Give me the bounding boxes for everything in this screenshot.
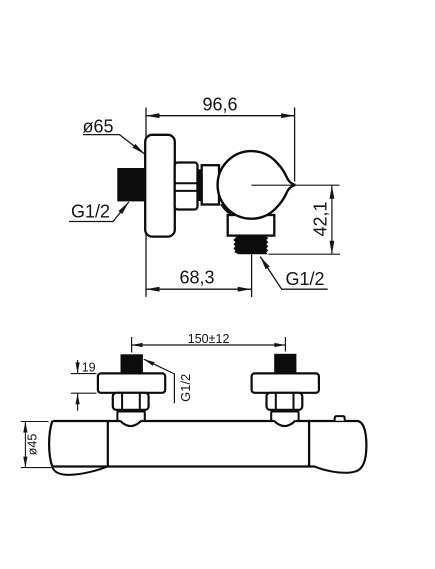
68,3 right extension line: [251, 255, 253, 298]
dimension ø45 line: [24, 422, 26, 468]
inlet nipple (black): [117, 168, 145, 201]
hex nut facet lines: [175, 182, 198, 184]
150 left extension line: [131, 337, 133, 353]
19 upper arrow line: [77, 360, 79, 373]
outlet thread (black): [233, 236, 268, 255]
left inlet dome: [120, 421, 141, 426]
right end cap curve: [356, 421, 367, 471]
left bottom crescent: [52, 467, 107, 475]
bar top line segment 2: [141, 420, 273, 422]
19 lower arrow line: [77, 393, 79, 410]
left hex nut: [113, 393, 149, 410]
wall flange: [145, 135, 175, 237]
wall / left extension line: [145, 108, 147, 297]
bar bottom line: [52, 465, 314, 467]
right extension line (lever tip): [294, 108, 296, 182]
label G1/2 lower-right leader: [260, 257, 328, 290]
label G1/2 bottom leader: [144, 359, 175, 403]
right bottom crescent: [314, 466, 356, 472]
42,1 bottom reference line: [269, 253, 341, 255]
left end cap arc: [49, 421, 52, 467]
ø45 bottom extension line: [21, 467, 53, 469]
svg-text:G1/2: G1/2: [285, 269, 324, 289]
bar top line segment 1: [53, 420, 121, 422]
left end cap separator: [107, 421, 109, 467]
dimension 68,3 line: [146, 288, 251, 290]
svg-text:96,6: 96,6: [202, 95, 237, 115]
svg-text:68,3: 68,3: [179, 268, 214, 288]
right collar: [271, 412, 298, 422]
19 top extension line: [71, 373, 97, 375]
dimension 150±12 line: [132, 344, 286, 346]
valve housing: [202, 165, 219, 204]
label ø65 leader: [83, 135, 145, 154]
19 bottom extension line: [71, 392, 97, 394]
svg-text:42,1: 42,1: [311, 201, 331, 236]
left inlet nipple (black): [121, 354, 143, 373]
svg-text:ø45: ø45: [26, 434, 40, 456]
ball knob with lever: [218, 151, 296, 219]
ø45 top extension line: [21, 421, 49, 423]
right inlet dome: [274, 421, 296, 426]
dimension 96,6 line: [146, 115, 295, 117]
outlet body: [228, 215, 275, 236]
bar top line segment 3: [295, 420, 357, 422]
right inlet nipple (black): [274, 354, 296, 373]
centerline through lever: [251, 184, 339, 186]
small button on knob: [335, 416, 345, 421]
label G1/2 upper-left leader: [69, 202, 129, 222]
left wall flange: [98, 373, 165, 392]
right wall flange: [252, 373, 319, 392]
150 right extension line: [284, 337, 286, 352]
svg-text:G1/2: G1/2: [178, 374, 193, 402]
svg-text:G1/2: G1/2: [71, 202, 110, 222]
left collar: [117, 412, 144, 422]
knob separator: [308, 421, 310, 467]
fillet between ball and body: [223, 203, 232, 212]
svg-text:19: 19: [82, 361, 96, 375]
hex nut: [175, 163, 198, 210]
svg-text:150±12: 150±12: [188, 332, 230, 346]
svg-text:ø65: ø65: [82, 116, 113, 136]
dimension 42,1 line: [331, 185, 333, 254]
right hex nut: [267, 393, 303, 410]
stem collar: [197, 169, 202, 201]
